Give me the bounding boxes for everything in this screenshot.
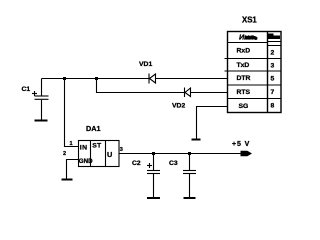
ground bar for regulator GND <box>62 179 73 181</box>
svg-text:VD1: VD1 <box>139 61 152 68</box>
svg-text:DTR: DTR <box>237 75 251 82</box>
svg-text:2: 2 <box>271 50 275 57</box>
diode VD1 <box>149 74 156 84</box>
ground bar for C2 <box>147 197 160 199</box>
svg-text:C2: C2 <box>132 160 141 167</box>
svg-text:3: 3 <box>120 147 123 153</box>
capacitor C2 <box>147 154 160 198</box>
regulator DA1 box <box>79 141 120 167</box>
svg-text:RxD: RxD <box>237 48 251 55</box>
wire: branch down to RTS line <box>97 79 228 93</box>
capacitor C1 <box>35 79 49 121</box>
svg-text:3: 3 <box>271 62 275 69</box>
capacitor C3 <box>183 154 196 198</box>
connector XS1 left column row lines <box>225 43 268 99</box>
svg-text:1: 1 <box>70 141 73 147</box>
connector XS1 table outline <box>228 32 282 113</box>
svg-text:IN: IN <box>80 144 88 151</box>
svg-text:C1: C1 <box>22 86 31 93</box>
svg-text:DA1: DA1 <box>86 124 101 133</box>
ground bar for C3 <box>184 197 196 199</box>
node junction dot C2 <box>152 152 155 155</box>
wire: SG to ground <box>197 107 228 140</box>
svg-text:GND: GND <box>79 158 93 165</box>
+5V arrow head <box>241 151 253 157</box>
svg-text:+5 V: +5 V <box>232 141 250 148</box>
svg-text:SG: SG <box>239 103 249 110</box>
connector XS1 right column row lines <box>268 42 282 99</box>
svg-text:U: U <box>107 150 112 159</box>
svg-text:RTS: RTS <box>237 89 251 96</box>
capacitor C1 plus sign <box>32 91 37 96</box>
wire: regulator GND to ground <box>67 160 79 180</box>
header pin cell dark blob <box>268 34 281 40</box>
svg-text:7: 7 <box>271 89 275 96</box>
wire: +5V rail <box>119 153 251 155</box>
svg-text:TxD: TxD <box>237 62 250 69</box>
wire: main +V node horizontal (DTR line) <box>42 78 228 80</box>
capacitor C2 plus sign <box>147 163 152 168</box>
svg-text:2: 2 <box>63 151 66 157</box>
svg-text:5: 5 <box>271 76 275 83</box>
node junction dot C3 <box>188 152 191 155</box>
svg-text:8: 8 <box>271 103 275 110</box>
svg-text:VD2: VD2 <box>172 103 185 110</box>
svg-text:ST: ST <box>92 143 102 150</box>
diode VD2 <box>185 88 191 98</box>
node junction dot B <box>95 77 98 80</box>
wire: branch down to regulator input <box>65 79 79 147</box>
node junction dot A <box>63 77 66 80</box>
svg-text:C3: C3 <box>169 160 178 167</box>
ground bar for C1 <box>35 120 48 122</box>
svg-text:XS1: XS1 <box>242 16 257 25</box>
ground bar for SG <box>192 139 201 141</box>
